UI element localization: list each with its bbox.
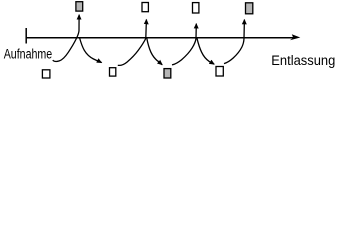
timeline right arrowhead [290, 34, 300, 40]
start tick (Aufnahme marker) [25, 28, 27, 44]
square T4 (gray, above line) [246, 3, 253, 14]
square B1 (white, below line) [42, 70, 50, 78]
rising arc R3: B4 up to event 4, arrow to T4 [224, 20, 244, 64]
square B4 (white, below line) [216, 67, 223, 77]
svg-text:Entlassung: Entlassung [271, 53, 335, 68]
square B2 (white, below line) [110, 68, 116, 76]
descending arc D3: event 3 down to B4, arrowhead [197, 38, 214, 64]
timeline main line [26, 37, 294, 39]
rising arc R2: B3 up to event 3, arrow to T3 [172, 24, 196, 65]
square T3 (white, above line) [193, 3, 199, 13]
square T1 (gray, above line) [76, 2, 83, 11]
rising arc R1: B2 up to event 2, arrow to T2 [118, 20, 147, 66]
svg-text:Aufnahme: Aufnahme [4, 46, 53, 61]
descending arc D1: event 1 down to B2, arrowhead [80, 38, 102, 63]
descending arc D2: event 2 down to B3, arrowhead [147, 38, 162, 64]
square T2 (white, above line) [142, 3, 148, 12]
rising arc R0: Aufnahme swash up to event 1, arrow to T1 [53, 15, 79, 62]
square B3 (gray, below line) [164, 69, 171, 78]
